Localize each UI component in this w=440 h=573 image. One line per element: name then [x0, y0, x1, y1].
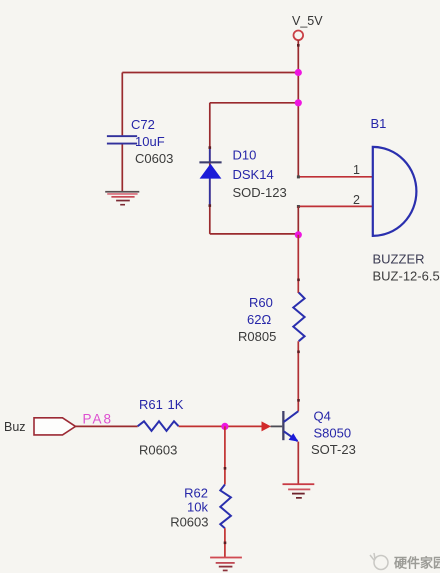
svg-text:PA8: PA8	[83, 412, 114, 427]
transistor Q4 collector stroke	[284, 411, 299, 422]
svg-text:S8050: S8050	[314, 426, 352, 441]
svg-text:1K: 1K	[168, 397, 184, 412]
wire: horizontal to diode top	[210, 102, 298, 104]
svg-text:R62: R62	[184, 486, 208, 501]
power port V_5V circle	[294, 31, 304, 41]
svg-text:SOT-23: SOT-23	[311, 442, 356, 457]
R60 pin end tick top	[297, 279, 300, 282]
capacitor C72 plates	[107, 135, 137, 137]
R62 pin end tick bottom	[224, 542, 227, 545]
node junction dot 1	[295, 69, 302, 76]
svg-text:V_5V: V_5V	[292, 14, 323, 28]
diode D10 pin end ticks	[209, 146, 212, 149]
svg-text:10uF: 10uF	[135, 134, 165, 149]
collector pin end tick	[297, 399, 300, 402]
diode D10 triangle	[200, 164, 222, 179]
svg-text:R0805: R0805	[238, 329, 276, 344]
wire: pin2 corner down to junction	[297, 206, 299, 234]
svg-text:BUZ-12-6.5: BUZ-12-6.5	[373, 269, 440, 284]
transistor Q4 emitter stroke	[284, 431, 298, 441]
svg-text:1: 1	[353, 163, 360, 177]
svg-text:R61: R61	[139, 397, 163, 412]
buzzer B1 body	[373, 147, 417, 236]
corner mark pin1	[297, 175, 300, 178]
signal direction arrow on base wire	[262, 421, 272, 431]
wire: port to R61	[75, 425, 138, 427]
svg-text:2: 2	[353, 193, 360, 207]
svg-text:Q4: Q4	[314, 409, 331, 424]
node junction dot 3	[295, 231, 302, 238]
svg-text:BUZZER: BUZZER	[373, 252, 425, 267]
diode D10 pin segments (blue)	[209, 149, 211, 163]
svg-text:B1: B1	[371, 116, 387, 131]
svg-text:R0603: R0603	[170, 515, 208, 530]
svg-text:硬件家园: 硬件家园	[394, 556, 440, 571]
svg-text:C0603: C0603	[135, 151, 173, 166]
ground under C72	[105, 191, 139, 206]
ground under Q4	[283, 483, 315, 498]
wire: top horizontal to capacitor	[122, 72, 298, 74]
transistor Q4 emitter arrow	[289, 433, 299, 441]
wire: R60 down to collector	[297, 341, 299, 411]
corner mark pin2	[297, 205, 300, 208]
wire: R61 to junction to arrow	[179, 425, 262, 427]
wire: junction down to R62	[224, 426, 226, 484]
svg-text:10k: 10k	[187, 500, 208, 515]
transistor base pin (dark)	[271, 425, 283, 427]
R62 pin end tick top	[224, 467, 227, 470]
wire: V_5V down to pin1 corner	[297, 40, 299, 177]
svg-text:R60: R60	[249, 295, 273, 310]
wire: capacitor to ground	[121, 145, 123, 192]
node junction dot 4	[221, 423, 228, 430]
resistor R60 zigzag	[293, 293, 304, 342]
wire: buzzer pin 1	[298, 176, 373, 178]
svg-text:Buz: Buz	[4, 420, 26, 434]
wire: buzzer pin 2	[298, 205, 373, 207]
svg-text:D10: D10	[233, 148, 257, 163]
transistor Q4 base bar	[282, 411, 284, 440]
svg-text:62Ω: 62Ω	[247, 312, 271, 327]
svg-text:C72: C72	[131, 117, 155, 132]
resistor R61 zigzag	[138, 421, 179, 431]
wire: R62 to ground	[224, 528, 226, 557]
resistor R62 zigzag	[220, 485, 231, 529]
pin end tick below power circle	[297, 44, 300, 47]
wire: diode bottom horizontal	[210, 233, 298, 235]
svg-text:DSK14: DSK14	[233, 167, 274, 182]
node junction dot 2	[295, 99, 302, 106]
wire: emitter down to ground	[297, 442, 299, 485]
wire: junction down to R60	[297, 235, 299, 293]
wire: capacitor branch vertical upper	[121, 73, 123, 136]
svg-text:SOD-123: SOD-123	[233, 185, 287, 200]
diode branch: left vertical wire	[209, 103, 211, 234]
port Buz shape	[34, 418, 76, 435]
ground under R62	[210, 557, 242, 572]
svg-text:R0603: R0603	[139, 443, 177, 458]
diode D10 cathode bar	[199, 161, 221, 163]
R60 pin end tick bottom	[297, 351, 300, 354]
watermark icon	[370, 553, 388, 570]
